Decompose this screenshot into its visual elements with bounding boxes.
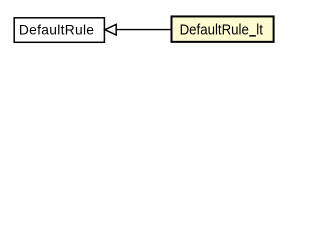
class box DefaultRule_lt (highlighted) [171,16,273,41]
inheritance arrowhead (hollow triangle) [105,24,116,35]
class box DefaultRule [14,18,104,43]
underscore of DefaultRule_lt [249,35,256,37]
wire inheritance shaft [116,29,171,31]
svg-text:DefaultRule: DefaultRule [19,22,94,37]
